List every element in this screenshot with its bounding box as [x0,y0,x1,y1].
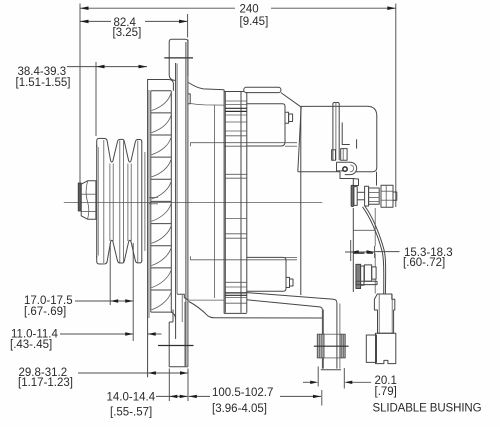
ext line x321.8 [321,390,323,406]
fan bottom corner [171,312,176,319]
rear lug left inner line [322,310,324,369]
housing right edge below cover [352,179,354,187]
shaft washer [78,183,81,211]
ext line x110.2 [109,243,111,305]
pulley front face [96,145,98,257]
ext line foot left x169.3 [168,369,170,402]
front bracket flange face [185,42,187,366]
ext line x133.2 (groove line extended) [132,243,134,341]
bracket-foot junction step [177,294,189,300]
top box nub [285,112,289,123]
ext line x350.7 [350,240,352,261]
dim 29.8-31.2 [78,372,188,374]
svg-text:[.79]: [.79] [375,386,397,398]
lug hole centerline tick [164,57,193,59]
lower stud boss [356,264,361,288]
fan blades [151,91,172,312]
fan front edge / pulley rear plane (also extension line) [147,79,149,377]
ext line right x396 [395,4,397,208]
front housing rear rim [223,90,225,314]
dim 14.0-14.4 [156,395,188,397]
ext line x187.6 top [187,14,189,38]
bushing through-hole lines [324,333,340,335]
housing barrel top line [191,143,298,147]
rear housing cone [281,93,302,108]
shaft nut [81,181,96,219]
ext tick x374.6 [374,246,376,258]
front bracket edges behind fan [175,63,177,339]
ext line left x80 [79,4,81,191]
fan top [148,80,174,91]
svg-text:[.60-.72]: [.60-.72] [403,257,445,269]
rear cover outline [298,106,377,172]
housing barrel bottom line [191,256,298,260]
top strip bar [244,87,281,92]
svg-text:100.5-102.7: 100.5-102.7 [212,387,273,399]
svg-text:[1.17-1.23]: [1.17-1.23] [18,377,73,389]
front foot [172,310,174,323]
bushing right end (hatched) [340,334,345,358]
rear housing rear face [300,107,302,295]
flange notch [188,94,190,104]
svg-text:20.1: 20.1 [375,375,397,387]
cover rib [333,103,339,161]
svg-text:[.43-.45]: [.43-.45] [10,339,52,351]
connector body [374,294,394,333]
dim 240 line [80,7,235,9]
svg-text:SLIDABLE BUSHING: SLIDABLE BUSHING [373,403,482,415]
ext line bushing right x344.3 [343,368,345,389]
B+ stud shaft [357,191,364,193]
ext line x96 [95,62,97,136]
svg-text:240: 240 [240,4,259,16]
dim 15.3-18.3 [345,251,375,253]
svg-text:[3.96-4.05]: [3.96-4.05] [212,403,267,415]
svg-text:[.55-.57]: [.55-.57] [110,407,152,419]
bottom box [246,257,286,291]
pulley bottom groove profile [97,240,142,264]
shaft hub lines [149,196,158,198]
dim 82.4 line [80,20,111,22]
front housing bottom inner line [189,299,225,301]
ext line foot right x188 [187,369,189,402]
step line y230 [353,229,374,231]
cover clip rects [332,150,336,160]
shaft centerline [64,202,323,204]
top box (capacitor) [246,104,285,146]
pulley groove lines [109,164,111,242]
pulley top groove profile [97,138,142,162]
B+ stud tip [393,192,397,200]
cover lower edge segments y253 [353,252,364,254]
dim 38.4-39.3 [67,66,147,68]
rear lug hole centerline tick [314,345,349,347]
cover bottom step [340,172,354,179]
lower stud plate [356,281,377,284]
dim 240 arrows [80,6,89,10]
dim 100.5-102.7 [189,395,210,397]
housing bottom contour upper [247,293,337,369]
top mounting lug [169,39,188,80]
svg-text:[3.25]: [3.25] [113,27,142,39]
pulley hub spacer [144,152,146,251]
lower stud parts [361,266,364,285]
cover tick [356,139,358,148]
B+ washer [365,186,369,206]
wire harness [363,207,384,294]
connector lower blocks [366,335,376,362]
foot hole centerline tick [158,345,194,347]
svg-text:[9.45]: [9.45] [240,16,269,28]
housing bottom contour lower [247,300,323,369]
B+ inner washer [354,187,357,206]
B+ terminal boss [351,185,354,206]
B+ terminal boss step [353,179,358,186]
B+ nut 2 [381,185,393,207]
skirt bottom contour [189,302,322,319]
ext line bushing left x318.2 [317,367,319,387]
front housing top contour [188,83,224,90]
B+ nut 1 [369,188,380,204]
wire hook [339,162,358,174]
svg-text:14.0-14.4: 14.0-14.4 [107,392,156,404]
stator lamination stack [224,92,247,314]
cover L detail [342,123,350,145]
svg-text:[.67-.69]: [.67-.69] [24,306,66,318]
rear lug bottom [321,369,341,371]
bottom box nub [286,277,290,287]
bushing left end (hatched) [317,334,324,358]
svg-text:[1.51-1.55]: [1.51-1.55] [16,77,71,89]
pulley rear face [141,142,143,262]
dim 11.0-11.4 [60,333,133,335]
dim 17.0-17.5 [75,300,133,302]
rear lug right second line [339,304,341,369]
dim 20.1 slidable bushing [303,381,310,383]
